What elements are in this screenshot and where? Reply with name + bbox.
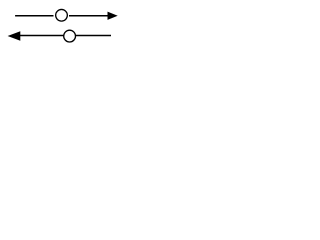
node: open circle on top arrow <box>56 9 68 21</box>
wire: top arrow shaft, left segment <box>15 15 53 17</box>
node: open circle on bottom arrow <box>64 30 76 42</box>
wire: top arrow shaft, right segment <box>69 15 108 17</box>
arrowhead: top arrow, pointing right <box>108 12 118 20</box>
arrowhead: bottom arrow, pointing left <box>8 31 21 41</box>
wire: bottom arrow shaft <box>20 35 111 37</box>
